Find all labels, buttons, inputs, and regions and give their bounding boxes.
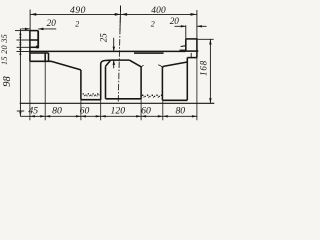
rib 1 bottom — [81, 99, 101, 101]
dimension line 490/2 — [30, 13, 121, 15]
bottom dimension line — [20, 115, 197, 117]
svg-text:98: 98 — [2, 76, 13, 87]
paper background — [0, 0, 217, 130]
centre line (dash-dot, slightly slanted as in scan) — [118, 6, 120, 104]
dimension line 400/2 — [121, 13, 197, 15]
svg-text:400: 400 — [151, 6, 166, 16]
haunch slope to rib 1 — [51, 61, 81, 70]
svg-text:80: 80 — [52, 106, 62, 117]
slab soffit over gap rib2-rib3 — [134, 52, 164, 54]
bottom extension line x100.7 — [100, 100, 102, 121]
rib 2 top — [111, 59, 130, 61]
small step under right kerb — [190, 53, 192, 58]
right kerb left face — [185, 39, 187, 51]
extension line right kerb inner face — [185, 25, 187, 39]
left kerb lower line — [30, 46, 39, 48]
gap corner fillet right — [158, 65, 162, 67]
right kerb bottom ledge — [186, 50, 199, 52]
rib 2 right face — [140, 67, 142, 99]
bottom dimension arrowheads — [30, 115, 197, 117]
deck top second line — [30, 52, 49, 54]
left overhang soffit — [30, 60, 51, 62]
svg-text:60: 60 — [80, 106, 90, 117]
ladder tick road level y51.5 — [17, 51, 30, 53]
tick at right kerb top extended — [198, 38, 214, 40]
gap corner fillet left — [141, 65, 143, 67]
right deck edge face — [196, 51, 198, 58]
svg-text:60: 60 — [141, 106, 151, 117]
bottom extension line x81.4 — [80, 100, 82, 121]
svg-text:2: 2 — [75, 19, 79, 28]
left kerb mid line — [30, 39, 38, 41]
support base line — [20, 102, 215, 104]
bottom extension line x29.9 — [29, 61, 31, 120]
rib 2 left face — [105, 66, 107, 98]
svg-text:120: 120 — [111, 106, 126, 117]
small dimension 20 left (kerb top) line with outside arrows — [21, 28, 30, 30]
rib 1 left face — [80, 70, 82, 100]
rib 3 top — [164, 62, 187, 66]
rib 3 right face — [186, 58, 188, 101]
bottom extension line x45.2 — [44, 61, 46, 120]
ladder tick y47.3 — [17, 46, 30, 48]
roadway surface — [30, 50, 186, 52]
svg-text:20: 20 — [47, 18, 57, 28]
ladder tick kerb top level — [15, 30, 30, 32]
arrowheads of top dimension lines — [30, 13, 197, 16]
svg-text:168: 168 — [198, 60, 208, 76]
svg-text:25: 25 — [99, 33, 109, 43]
rib 2 left chamfer — [106, 60, 111, 66]
left vertical dimension ladder line — [19, 29, 21, 117]
right overhang soffit — [187, 57, 197, 59]
rib 1 right face with fillet to rib 2 top — [101, 60, 111, 100]
bottom extension line x163.6 — [162, 100, 164, 120]
bottom extension line x196.9 — [196, 58, 198, 121]
bottom extension line x141.1 — [140, 99, 142, 121]
slab thickness 25 leader lower — [113, 60, 115, 68]
top dimension extension line left x=30 — [29, 10, 31, 31]
rib 3 left face with top fillet — [162, 66, 164, 100]
svg-text:15 20 35: 15 20 35 — [0, 34, 9, 65]
small dimension 20 right (kerb top) line with outside arrows — [175, 25, 186, 27]
ladder tick y40 — [17, 39, 30, 41]
small tick at foot of 98 dimension — [17, 110, 24, 112]
rib 3 bottom — [162, 99, 187, 101]
left edge face — [29, 31, 31, 62]
joint line a — [44, 53, 46, 61]
rib 2 right chamfer — [129, 60, 141, 67]
svg-text:20: 20 — [170, 16, 180, 26]
right dimension line 168 — [209, 39, 211, 103]
right kerb top — [186, 38, 198, 40]
svg-text:80: 80 — [175, 106, 185, 117]
joint line b — [48, 53, 50, 61]
left kerb top — [30, 30, 38, 32]
stipple row inside rib 1 — [83, 93, 100, 96]
ladder arrowheads — [19, 31, 21, 117]
svg-text:2: 2 — [151, 19, 155, 28]
slab thickness 25 leader upper — [113, 38, 115, 52]
svg-text:490: 490 — [70, 5, 86, 16]
rib 2 bottom — [106, 98, 142, 100]
surfacing fillet at right kerb — [181, 45, 186, 48]
stipple row between rib 2 and rib 3 — [142, 95, 163, 98]
left kerb inner face — [37, 31, 39, 49]
top dimension extension line right x=197 — [196, 10, 198, 39]
solid overlap of centre line at dimension junction — [119, 6, 122, 31]
right kerb right face — [196, 39, 198, 51]
svg-text:45: 45 — [28, 106, 38, 117]
kerb foot blob — [36, 46, 39, 49]
